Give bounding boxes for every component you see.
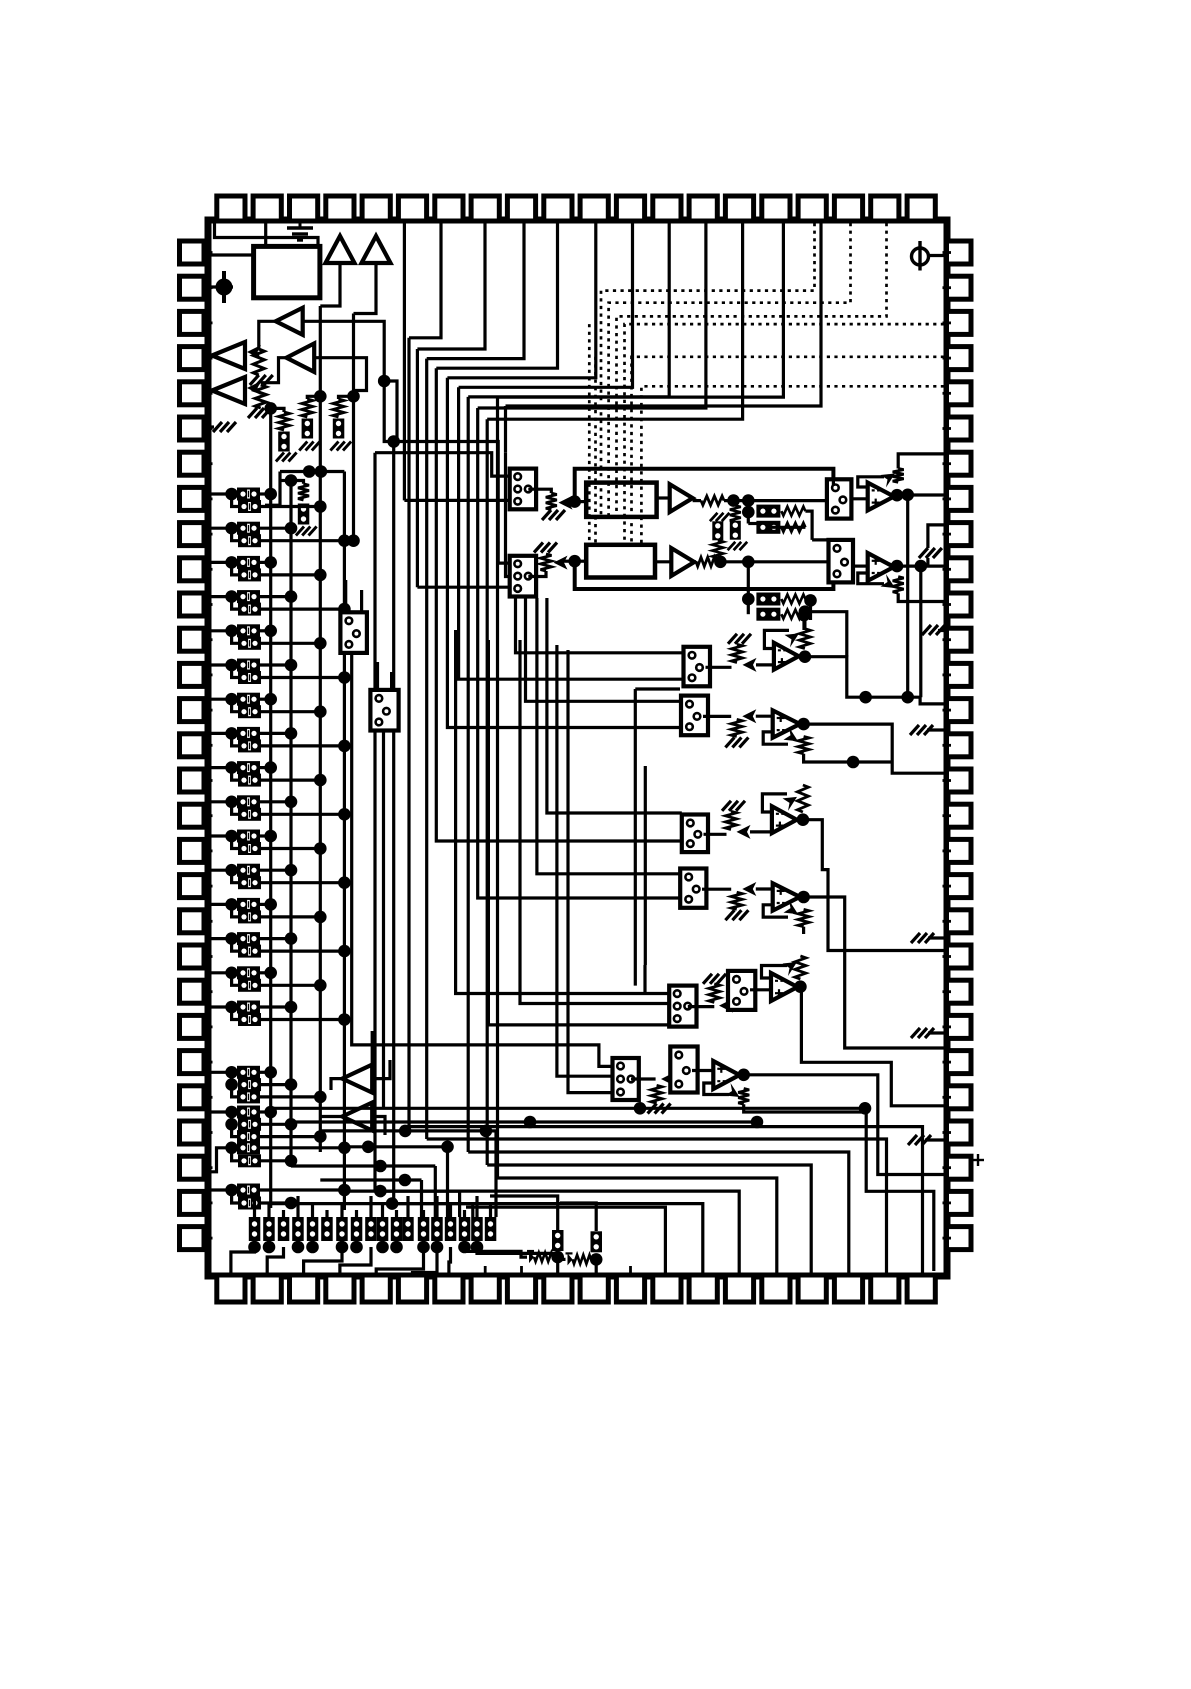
wire stair9 — [487, 223, 742, 419]
node grpA out3 — [314, 1091, 327, 1104]
wire AD fb loop — [763, 905, 788, 917]
jumper bottomrow g1b1 — [351, 1217, 363, 1241]
node row10 upper out — [285, 796, 298, 809]
wire knot v0 — [494, 1131, 497, 1217]
jumper pair row6 upper — [237, 659, 260, 672]
wire B9 out — [693, 499, 701, 502]
wire stair5 — [447, 223, 595, 378]
node row2 lower out — [338, 534, 351, 547]
wire knot h471 — [280, 470, 344, 473]
pin left 10 — [180, 558, 205, 581]
pin right 12 — [947, 628, 972, 651]
switch SA — [684, 647, 711, 687]
node row14 upper out — [285, 932, 298, 945]
jumper pair row13 upper — [237, 898, 260, 911]
node row1 in — [225, 488, 238, 501]
bus x436 — [436, 368, 682, 841]
chassis SA — [728, 634, 751, 644]
wire stub right pin 4 — [943, 357, 952, 360]
pin top 17 — [798, 196, 826, 221]
node row11 in — [225, 830, 238, 843]
pin top 6 — [398, 196, 426, 221]
wire B4 arrow — [247, 345, 261, 359]
wire row10 lower elbow — [232, 802, 238, 815]
wire bottomrow feed g1b2 — [369, 1196, 372, 1217]
node bottomrow g0b3 — [292, 1241, 305, 1254]
wire fanout4 — [487, 1165, 811, 1273]
jumper BR3 — [756, 593, 780, 606]
pin right 21 — [947, 945, 972, 968]
DAC block U3 — [586, 545, 655, 578]
wire row5 lower out — [261, 642, 320, 645]
bus x409 — [407, 338, 410, 1127]
wire A2 out — [894, 564, 944, 567]
wire left pin row10 — [211, 800, 238, 803]
node row14 in — [225, 932, 238, 945]
jumper bottomrow g2b4 — [471, 1217, 483, 1241]
pin left 1 — [180, 241, 205, 264]
wire knot h3 — [320, 1178, 421, 1181]
node bottomrow g0b4 — [306, 1241, 319, 1254]
node grpC out1 — [338, 1142, 351, 1155]
wire grpB link — [230, 1112, 233, 1124]
pin left 23 — [180, 1015, 205, 1038]
wire fanout1 — [409, 1127, 923, 1273]
chassis chainB — [299, 442, 320, 451]
wire left pin grpA — [211, 1071, 232, 1074]
wire feed chA1 — [516, 587, 684, 653]
node knot2 — [315, 465, 328, 478]
node AA out — [799, 650, 812, 663]
dotted wire dv3 — [617, 223, 887, 516]
jumper chainD — [712, 521, 723, 540]
pin top 9 — [507, 196, 535, 221]
switch S5 — [340, 612, 367, 653]
node n748b — [742, 506, 755, 519]
jumper BR1 — [756, 505, 780, 518]
node grpA out2 — [285, 1078, 298, 1091]
node row16 in — [225, 1001, 238, 1014]
pin left 24 — [180, 1051, 205, 1074]
jumper bottomrow g2b3 — [459, 1217, 471, 1241]
node row2 lower ext — [347, 534, 360, 547]
wire bottomrow feed g1b3 — [381, 1203, 384, 1217]
resistor BR2r — [781, 523, 805, 532]
chassis chainA — [276, 453, 297, 462]
wire n748c down — [747, 562, 750, 614]
wire left pin row11 — [211, 834, 238, 837]
wire bottomrow feed g0b2 — [282, 1210, 285, 1217]
resistor R7 — [696, 557, 716, 566]
node bottomrow g1b0 — [336, 1241, 349, 1254]
wire S5 top2 — [360, 590, 363, 612]
wire row6 lower out — [261, 676, 344, 679]
jumper chainG — [591, 1231, 603, 1252]
wire chF sl out — [631, 1077, 656, 1080]
wire fanout3 — [468, 1152, 849, 1273]
wire bus h1122 — [291, 1120, 757, 1123]
buffer B4 (left, edge) — [212, 342, 245, 369]
jumper pair row7 lower — [238, 705, 261, 718]
pin right 26 — [947, 1121, 972, 1144]
wire left pin row6 — [211, 663, 238, 666]
jumper grpA box2 — [238, 1078, 261, 1091]
wire BR2 out — [771, 526, 806, 529]
node BR4 out — [798, 609, 811, 622]
wire BR4 out — [802, 615, 805, 630]
switch SC — [682, 815, 708, 853]
pin left 27 — [180, 1156, 205, 1179]
node bus h1122 b — [751, 1116, 764, 1129]
node row12 lower out — [338, 876, 351, 889]
wire row3 lower out — [261, 573, 320, 576]
resistor ABfb — [798, 737, 809, 754]
node cap C1 — [211, 271, 233, 303]
opamp chFA — [713, 1061, 739, 1089]
wire row3 lower elbow — [232, 562, 238, 575]
wire feed chE3 — [488, 640, 669, 1025]
wire row11 lower elbow — [232, 836, 238, 849]
node bottomrow g0b1 — [263, 1241, 276, 1254]
wire row2 upper out — [260, 527, 291, 530]
pin right 4 — [947, 347, 972, 370]
wire stair4 — [436, 223, 557, 368]
dotted wire dh6 — [641, 386, 944, 545]
node grpA out1 — [264, 1066, 277, 1079]
wire stub right pin 6 — [943, 427, 952, 430]
wire stub right pin 1 — [943, 251, 952, 254]
jumper pair row7 upper — [237, 693, 260, 706]
wire chE fb arrow — [783, 962, 798, 976]
wire BR1 out — [805, 511, 812, 540]
wire knot v4 — [458, 1191, 461, 1217]
wire row11 lower out — [261, 847, 320, 850]
wire stub left pin 27 — [204, 1166, 213, 1169]
pin top 14 — [689, 196, 717, 221]
node row15 upper out — [264, 967, 277, 980]
wire row11 upper out — [260, 834, 271, 837]
jumper pair row16 lower — [238, 1013, 261, 1026]
wire row15 lower elbow — [232, 973, 238, 986]
wire stub left pin 18 — [204, 850, 213, 853]
pin left 20 — [180, 910, 205, 933]
node row10 lower out — [338, 808, 351, 821]
wire B8 out — [320, 1115, 342, 1118]
wire grpA elbow — [232, 1085, 237, 1097]
node knot h5 — [386, 1197, 399, 1210]
bus x344 — [343, 472, 346, 1211]
pin right 10 — [947, 558, 972, 581]
node row7 upper out — [264, 693, 277, 706]
wire bottomrow feed g1b0 — [340, 1203, 343, 1217]
node n748d — [742, 593, 755, 606]
wire A2 fb arrow — [881, 574, 896, 588]
wire stub left pin 7 — [204, 462, 213, 465]
wire stub left pin 13 — [204, 674, 213, 677]
wire feed chC1 — [547, 598, 682, 813]
pin bottom 12 — [616, 1275, 644, 1302]
node row10 in — [225, 796, 238, 809]
node bus291 top — [285, 474, 298, 487]
node knot h3 — [399, 1174, 412, 1187]
chassis R3 — [542, 510, 565, 520]
pin left 22 — [180, 980, 205, 1003]
wire chF fb loop — [704, 1083, 729, 1095]
wire J1 down — [384, 381, 394, 442]
node bus h1108 b — [859, 1102, 872, 1115]
attenuator R2 — [255, 385, 266, 408]
wire row14 upper out — [260, 937, 291, 940]
wire row4 lower out — [261, 607, 344, 610]
wire row16 lower out — [261, 1018, 344, 1021]
jumper bottomrow g1b4 — [391, 1217, 403, 1241]
wire chainF top — [490, 1196, 558, 1230]
node row5 upper out — [264, 625, 277, 638]
pin bottom 20 — [907, 1275, 935, 1302]
buffer B3 (left) — [276, 308, 303, 335]
node A1 out2 — [901, 489, 914, 502]
wire row6 lower elbow — [232, 665, 238, 678]
resistor AAfb — [799, 629, 810, 649]
switch chF SL — [613, 1058, 639, 1100]
dotted wire dh4 — [625, 324, 945, 545]
wire gnd A2 stem — [926, 558, 929, 566]
wire lowstair3 — [304, 1247, 342, 1274]
node row14 lower out — [338, 945, 351, 958]
jumper pair row10 lower — [238, 808, 261, 821]
jumper pair row16 upper — [237, 1001, 260, 1014]
wire chE s0 top — [643, 965, 646, 993]
pin bottom 11 — [580, 1275, 608, 1302]
node row4 upper out — [285, 590, 298, 603]
wire stub right pin 9 — [943, 533, 952, 536]
bus top pin x404 — [403, 223, 406, 500]
wire left pin row7 — [211, 698, 238, 701]
wire left pin row4 — [211, 595, 238, 598]
wire stub left pin 28 — [204, 1202, 213, 1205]
pin top 12 — [616, 196, 644, 221]
wire stub left pin 9 — [204, 533, 213, 536]
pin right 5 — [947, 382, 972, 405]
wire bottomrow feed g1b4 — [395, 1210, 398, 1217]
DAC block U2 — [586, 483, 656, 517]
wire SC wiper arrow — [737, 825, 751, 839]
wire fanout2 — [427, 1139, 887, 1273]
pin left 21 — [180, 945, 205, 968]
attenuator chER — [709, 984, 720, 1003]
resistor BR4r — [781, 610, 805, 619]
wire grpB elbow — [232, 1124, 237, 1136]
wire bottomrow feed g0b1 — [267, 1203, 270, 1217]
wire SB wiper — [756, 715, 773, 718]
chassis gnd RE5 — [908, 1135, 931, 1145]
wire stair3 — [427, 223, 524, 359]
wire lowstair6 — [413, 1247, 438, 1274]
node row8 lower out — [338, 740, 351, 753]
pin left 29 — [180, 1227, 205, 1250]
wire S5 bottom feed chF — [352, 653, 613, 1067]
jumper bottomrow g1b2 — [365, 1217, 377, 1241]
wire grpC elbow — [232, 1148, 238, 1161]
node knot1 — [303, 465, 316, 478]
resistor chainC — [333, 399, 344, 417]
wire left pin row5 — [211, 629, 238, 632]
jumper pair row4 lower — [238, 603, 261, 616]
wire left pin row8 — [211, 732, 238, 735]
wire S5 top1 — [344, 580, 347, 612]
wire row12 lower out — [261, 881, 344, 884]
pin right 7 — [947, 452, 972, 475]
wire r7 link — [716, 560, 748, 563]
node J1 — [378, 375, 391, 388]
node bus270 top — [264, 402, 277, 415]
pin left 14 — [180, 699, 205, 722]
jumper pair row12 upper — [237, 864, 260, 877]
wire knot left elbow — [265, 472, 280, 506]
wire feed chB1 — [526, 587, 682, 701]
wire stub right pin 15 — [943, 744, 952, 747]
wire stub bottom pin — [484, 1266, 487, 1274]
switch SD — [680, 869, 706, 908]
wire row4 lower elbow — [232, 597, 238, 610]
jumper grpB box2 — [238, 1118, 261, 1131]
wire SA wiper arrow — [743, 658, 757, 672]
pin top 10 — [544, 196, 572, 221]
wire fanout8 — [466, 1207, 665, 1272]
node grpA b — [225, 1078, 238, 1091]
wire bottomrow feed g2b4 — [475, 1196, 478, 1217]
wire B6 output — [261, 358, 287, 383]
resistor R8 fb — [893, 577, 904, 594]
wire row9 upper out — [260, 766, 271, 769]
pin right 22 — [947, 980, 972, 1003]
node n748c — [742, 556, 755, 569]
opamp AC — [772, 806, 797, 833]
wire stub right pin 8 — [943, 497, 952, 500]
jumper pair row1 lower — [238, 500, 261, 513]
node chainC top — [347, 390, 360, 403]
wire left pin row1 — [211, 492, 238, 495]
pin right 20 — [947, 910, 972, 933]
pin bottom 13 — [653, 1275, 681, 1302]
attenuator R6 — [541, 554, 552, 571]
chassis gnd RE3 — [911, 933, 934, 943]
label plus — [972, 1154, 984, 1166]
jumper grpA box3 — [237, 1090, 260, 1103]
pin bottom 6 — [398, 1275, 426, 1302]
jumper chainC — [333, 419, 345, 439]
bus x505 — [504, 406, 507, 453]
pin top 1 — [217, 196, 245, 221]
opamp A1 — [868, 483, 894, 511]
wire stub left pin 20 — [204, 920, 213, 923]
wire chain0 elbow — [291, 481, 304, 484]
wire B7 up — [371, 1031, 374, 1065]
switch S3 — [827, 479, 852, 518]
switch S6 — [370, 690, 398, 731]
wire chF route — [740, 1075, 944, 1175]
wire bus h1108 — [271, 1107, 865, 1110]
resistor chainGr — [573, 1255, 592, 1264]
opamp AD — [773, 883, 800, 910]
pin right 27 — [947, 1156, 972, 1179]
node row7 lower out — [314, 705, 327, 718]
jumper pair row5 lower — [238, 637, 261, 650]
wire lowstair4 — [340, 1247, 371, 1274]
node row9 in — [225, 761, 238, 774]
wire left pin row2 — [211, 527, 238, 530]
wire AAfb top — [803, 612, 806, 629]
wire knot h2 — [291, 1164, 435, 1167]
wire grpB out1 — [260, 1110, 271, 1113]
pin right 6 — [947, 417, 972, 440]
jumper pair row9 lower — [238, 774, 261, 787]
wire link S4a — [812, 538, 828, 541]
wire bottomrow feed g2b5 — [489, 1203, 492, 1217]
wire U2 in — [575, 500, 587, 503]
pin right 13 — [947, 663, 972, 686]
node grpA a — [225, 1066, 238, 1079]
resistor chainA — [279, 412, 290, 430]
pin right 9 — [947, 523, 972, 546]
wire stub right pin 5 — [943, 392, 952, 395]
node bottomrow g2b4 — [471, 1241, 484, 1254]
node bus h1122 a — [524, 1116, 537, 1129]
pin left 16 — [180, 769, 205, 792]
wire row7 lower elbow — [232, 699, 238, 712]
wire chE s1 out — [750, 988, 771, 991]
pin right 2 — [947, 276, 972, 299]
pin right 25 — [947, 1086, 972, 1109]
node DAC1 in — [568, 495, 581, 508]
wire row12 lower elbow — [232, 870, 238, 883]
wire row5 upper out — [260, 629, 271, 632]
wire B2 stem — [354, 263, 377, 314]
wire grpA out3 — [260, 1095, 320, 1098]
node row1 upper out — [264, 488, 277, 501]
bus x393 — [392, 442, 395, 1204]
pin top 19 — [871, 196, 899, 221]
earth ground G1 — [287, 221, 313, 240]
pin left 11 — [180, 593, 205, 616]
wire AB fb loop — [763, 732, 788, 744]
node bottomrow g2b1 — [431, 1241, 444, 1254]
wire S1 out — [528, 489, 551, 493]
node A2 out2 — [915, 560, 928, 573]
pin right 1 — [947, 241, 972, 264]
bus x270 — [269, 408, 272, 1208]
wire n748 down — [747, 501, 750, 524]
wire chE fb loop — [762, 966, 788, 979]
wire feed chE1 — [456, 630, 670, 994]
wire left pin ground stub — [211, 425, 214, 428]
wire h452 — [375, 453, 510, 476]
wire chE route — [798, 987, 945, 1106]
wire stub left pin 6 — [204, 427, 213, 430]
node n748 — [742, 494, 755, 507]
wire chF fb route — [744, 1104, 934, 1271]
wire row8 upper out — [260, 732, 291, 735]
jumper pair row14 upper — [237, 932, 260, 945]
node chainG — [590, 1253, 603, 1266]
node row7 in — [225, 693, 238, 706]
wire feed chD1 — [537, 598, 680, 874]
node bottomrow g1b4 — [390, 1241, 403, 1254]
node grpC out2 — [285, 1155, 298, 1168]
resistor BR3r — [781, 595, 805, 604]
wire fanout7 — [394, 1204, 703, 1273]
pin left 4 — [180, 347, 205, 370]
